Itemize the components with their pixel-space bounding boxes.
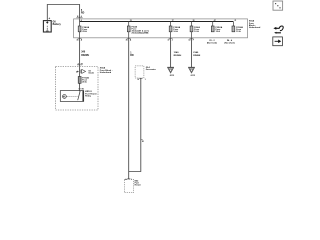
relay label bbox=[85, 91, 97, 97]
svg-text:X4 - 4: X4 - 4 bbox=[227, 39, 233, 42]
fuse block underhood box outline bbox=[74, 19, 248, 38]
svg-text:F: F bbox=[193, 39, 195, 41]
bus pin numbers bbox=[81, 19, 237, 22]
svg-text:10 A: 10 A bbox=[173, 30, 178, 33]
wire label 1 RD bbox=[130, 53, 134, 58]
svg-text:A: A bbox=[130, 38, 132, 41]
fuse F4 bbox=[190, 22, 193, 38]
battery positive terminal tick bbox=[49, 18, 51, 20]
svg-text:G113: G113 bbox=[191, 75, 196, 77]
fuse F2 bbox=[127, 22, 130, 38]
not used label under F5 bbox=[207, 40, 217, 45]
svg-text:25 A: 25 A bbox=[82, 30, 87, 33]
svg-text:25 A: 25 A bbox=[82, 81, 87, 84]
fuse F7 label bbox=[82, 77, 89, 84]
fuse block dashed box (relay section) bbox=[56, 67, 99, 111]
svg-text:86: 86 bbox=[82, 89, 84, 91]
svg-text:37: 37 bbox=[167, 39, 169, 41]
svg-text:Underhood: Underhood bbox=[100, 71, 112, 74]
ground G112 bbox=[167, 67, 174, 77]
icon expand (top right) bbox=[273, 1, 283, 10]
fuse F6 (not used) bbox=[232, 22, 235, 32]
svg-text:1140: 1140 bbox=[174, 51, 180, 54]
svg-text:Generator: Generator bbox=[146, 68, 156, 71]
battery G6 bbox=[43, 21, 51, 32]
svg-text:33: 33 bbox=[193, 20, 195, 22]
svg-text:Underhood: Underhood bbox=[249, 26, 261, 29]
svg-text:Diode: Diode bbox=[89, 73, 95, 75]
svg-text:RD/WH: RD/WH bbox=[81, 55, 89, 57]
wire label 2140 RD/BK bbox=[193, 51, 201, 57]
wire F1 output to relay branch bbox=[79, 38, 81, 91]
wire F3 output to ground bbox=[170, 38, 172, 67]
svg-text:B: B bbox=[138, 79, 140, 81]
svg-text:RD: RD bbox=[130, 55, 134, 57]
fuse F1 label bbox=[82, 26, 89, 33]
pin tick under fuse F3 bbox=[167, 39, 172, 42]
wire generator down bbox=[129, 78, 141, 172]
svg-text:G112: G112 bbox=[170, 75, 175, 77]
wire label 5 RD bbox=[81, 10, 85, 15]
fuel heater label bbox=[135, 181, 142, 187]
svg-text:15: 15 bbox=[130, 20, 132, 22]
diode D1 bbox=[76, 69, 94, 74]
svg-text:17: 17 bbox=[172, 20, 174, 22]
svg-text:S1: S1 bbox=[142, 141, 144, 143]
wire label 1140 RD/WH bbox=[174, 51, 182, 57]
svg-text:Battery: Battery bbox=[53, 23, 62, 26]
bus bar bbox=[80, 21, 234, 23]
wire joint down to fuel heater bbox=[128, 172, 130, 180]
wire F2 output (main feed) bbox=[128, 38, 130, 172]
relay switch contact bbox=[78, 91, 81, 100]
svg-text:F2: F2 bbox=[81, 63, 83, 65]
icon branch arrow (right margin) bbox=[273, 26, 283, 34]
svg-text:30: 30 bbox=[126, 39, 128, 41]
svg-text:15 A: 15 A bbox=[236, 30, 241, 33]
svg-text:340: 340 bbox=[81, 51, 86, 54]
fuse F2 label bbox=[132, 25, 149, 34]
battery label G6 Battery bbox=[53, 22, 62, 26]
svg-text:A: A bbox=[125, 178, 127, 181]
svg-text:(Not Used): (Not Used) bbox=[207, 42, 217, 45]
pin tick under fuse F4 bbox=[188, 39, 194, 42]
fuse F6 label bbox=[236, 26, 243, 33]
not used label under F6 bbox=[224, 39, 234, 45]
wire label 340 RD/WH bbox=[81, 51, 89, 57]
svg-text:20 A (LBZ)(LMM): 20 A (LBZ)(LMM) bbox=[132, 31, 149, 34]
fuse F3 bbox=[169, 22, 172, 38]
fuse F4 label bbox=[194, 26, 200, 33]
svg-text:15 A: 15 A bbox=[216, 30, 221, 33]
fuse F5 label bbox=[216, 26, 223, 33]
icon boxed right arrow bbox=[273, 37, 283, 46]
wire battery to fuse block bus bbox=[47, 5, 79, 23]
svg-text:RD/BK: RD/BK bbox=[193, 55, 201, 57]
inline connector tick on generator wire bbox=[141, 140, 144, 143]
relay KR101 box bbox=[60, 91, 83, 102]
wire F4 output to ground bbox=[191, 38, 193, 67]
pin tick under fuse F1 bbox=[76, 38, 82, 41]
fuse F5 (not used) bbox=[211, 22, 214, 32]
svg-text:4: 4 bbox=[81, 15, 82, 18]
generator dashed box bbox=[135, 66, 144, 78]
fuse F1 bbox=[78, 22, 81, 38]
generator pin tick bbox=[138, 79, 146, 82]
fuse F7 bbox=[78, 77, 81, 84]
svg-text:10 A: 10 A bbox=[194, 30, 199, 33]
connector pin tick at fuse block entry bbox=[76, 15, 82, 18]
svg-text:Relay: Relay bbox=[85, 96, 92, 98]
svg-text:RD/WH: RD/WH bbox=[174, 55, 182, 57]
ground G113 bbox=[188, 67, 195, 77]
pin 86 tick at relay bbox=[78, 89, 84, 91]
svg-text:4: 4 bbox=[78, 62, 79, 65]
svg-text:21: 21 bbox=[235, 20, 237, 22]
svg-text:1: 1 bbox=[145, 79, 146, 81]
svg-text:J: J bbox=[172, 39, 173, 41]
svg-text:Heater: Heater bbox=[135, 184, 142, 187]
svg-text:RD: RD bbox=[81, 13, 85, 15]
svg-text:A: A bbox=[81, 38, 83, 41]
relay linkage dashed bbox=[67, 95, 78, 97]
svg-text:(Not Used): (Not Used) bbox=[224, 42, 234, 45]
dashed box label X50A Fuse Block - Underhood bbox=[100, 67, 113, 74]
fuse F3 label bbox=[173, 26, 180, 33]
fuse block name label X50A Fuse Block - Underhood bbox=[249, 20, 261, 30]
relay coil bbox=[63, 95, 67, 99]
generator label bbox=[146, 66, 156, 71]
fuel heater dashed box bbox=[124, 179, 133, 192]
pin tick at fuel heater bbox=[125, 178, 131, 181]
svg-text:32: 32 bbox=[188, 39, 190, 41]
pin tick under fuse F2 bbox=[126, 38, 132, 41]
pin tick above relay dashed box bbox=[77, 62, 83, 65]
svg-text:2140: 2140 bbox=[193, 51, 199, 54]
svg-text:30: 30 bbox=[76, 39, 78, 41]
